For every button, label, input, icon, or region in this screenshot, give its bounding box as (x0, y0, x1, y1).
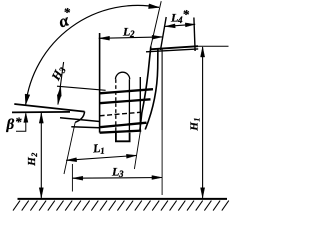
ground line (18, 198, 228, 200)
label H1 rotated (189, 118, 202, 132)
svg-text:H: H (26, 157, 38, 167)
neck left edge N1 extension up (151, 1, 161, 46)
L2 left arrow (99, 36, 109, 40)
extension line from nose down (L1 left) (64, 122, 75, 174)
neck right edge N2 (145, 48, 158, 130)
H3 arrow up (57, 87, 61, 97)
ground hatching (13, 201, 229, 211)
H1 dimension line (202, 47, 204, 198)
L3 dimension line (72, 177, 162, 180)
horizontal seat line H (12, 111, 70, 114)
block row R4 (100, 123, 147, 128)
L2 dimension line (99, 37, 163, 38)
block row R1 (100, 89, 153, 93)
svg-text:1: 1 (100, 146, 105, 156)
label H2 rotated (26, 153, 39, 167)
block bottom edge B (100, 131, 142, 133)
svg-text:*: * (15, 114, 22, 129)
slot arch (116, 72, 130, 79)
svg-text:*: * (183, 7, 190, 22)
alpha arc (26, 5, 159, 104)
extension line L3 left (71, 164, 73, 192)
block right edge V4 (139, 77, 141, 131)
seat top line M1 (60, 118, 100, 122)
L1 dimension line (66, 155, 136, 160)
shank nose rounded corner (75, 112, 84, 123)
H3 arrow down (57, 95, 61, 105)
head right edge (194, 18, 195, 52)
H1 top reference line (195, 45, 229, 47)
svg-text:3: 3 (118, 169, 124, 179)
H2 dimension line (40, 113, 42, 198)
slot right side V3 (128, 79, 130, 132)
neck left edge N1 (140, 47, 151, 132)
head bottom lower line B2 (146, 49, 198, 52)
shank butt face V163 (161, 49, 163, 130)
block row R2 (100, 99, 151, 103)
L2 right arrow (152, 35, 162, 39)
head left edge (161, 17, 167, 50)
svg-text:β: β (6, 117, 15, 133)
L4 dimension line (165, 24, 195, 26)
L4 right arrow (185, 23, 195, 27)
label H3 rotated (48, 63, 68, 83)
svg-text:2: 2 (30, 153, 39, 158)
H2 arrow up (39, 113, 43, 123)
neck left edge extension below (134, 131, 140, 169)
H2 arrow down (39, 188, 43, 198)
H3 dimension line slanted (58, 62, 64, 105)
svg-text:2: 2 (129, 29, 135, 39)
alpha arc arrow right (149, 4, 160, 9)
shank top face line T extended left (14, 104, 84, 112)
beta leader (16, 114, 26, 132)
L1 right arrow (126, 154, 136, 158)
L1 left arrow (66, 158, 77, 162)
seat bottom line M2 (71, 127, 99, 128)
L3 left arrow (73, 176, 83, 180)
alpha arc arrow down (25, 94, 30, 104)
H3 reference line (57, 86, 106, 90)
svg-text:1: 1 (193, 118, 202, 122)
L3 right extension (161, 130, 163, 195)
svg-text:*: * (64, 5, 71, 20)
bottom tab U (116, 133, 130, 142)
block row R3 dashed (100, 112, 141, 116)
label L1 (91, 141, 105, 157)
beta leader arrow up (24, 113, 28, 123)
slot left side V2 dashed (115, 79, 117, 132)
svg-text:H: H (189, 122, 201, 132)
head bottom edge B1 (150, 46, 198, 49)
L3 right arrow (152, 176, 162, 180)
block left edge V1 + L2 extension (99, 33, 101, 133)
H1 arrow up (201, 47, 205, 57)
H1 arrow down (201, 188, 205, 198)
L4 left arrow (165, 24, 175, 28)
